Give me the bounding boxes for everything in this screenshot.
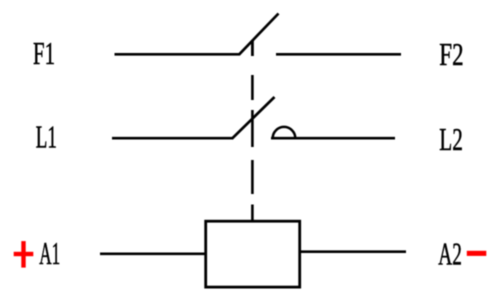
svg-text:F1: F1: [33, 36, 55, 71]
svg-text:L1: L1: [36, 120, 57, 155]
linkage dash 2: [251, 75, 254, 100]
contact blade (top, NO contact of F row): [239, 14, 279, 55]
svg-text:F2: F2: [439, 37, 463, 72]
linkage dash 5 (joins coil top): [251, 205, 254, 223]
wire L2 right: [271, 137, 395, 140]
actuator tick on F blade: [251, 40, 254, 56]
wire F1 left: [115, 53, 240, 56]
svg-text:A2: A2: [438, 237, 462, 272]
contact blade (L row): [232, 97, 275, 139]
svg-text:L2: L2: [439, 122, 463, 157]
red minus sign (− polarity at A2): [467, 251, 487, 256]
linkage dash 4: [251, 160, 254, 194]
coil box (relay coil): [206, 221, 300, 287]
wire A2 right: [300, 250, 406, 253]
wire A1 left: [100, 253, 206, 256]
linkage dash 3 (through L blade and wire): [251, 110, 254, 147]
semicircle (slow-release contact symbol): [273, 127, 296, 138]
wire L1 left: [112, 137, 233, 140]
svg-text:A1: A1: [39, 236, 60, 271]
red plus sign (+ polarity at A1): [14, 252, 34, 256]
wire F2 right: [276, 53, 401, 56]
mechanical linkage dashed line, dash 1 (through F tick zone): [251, 41, 254, 57]
